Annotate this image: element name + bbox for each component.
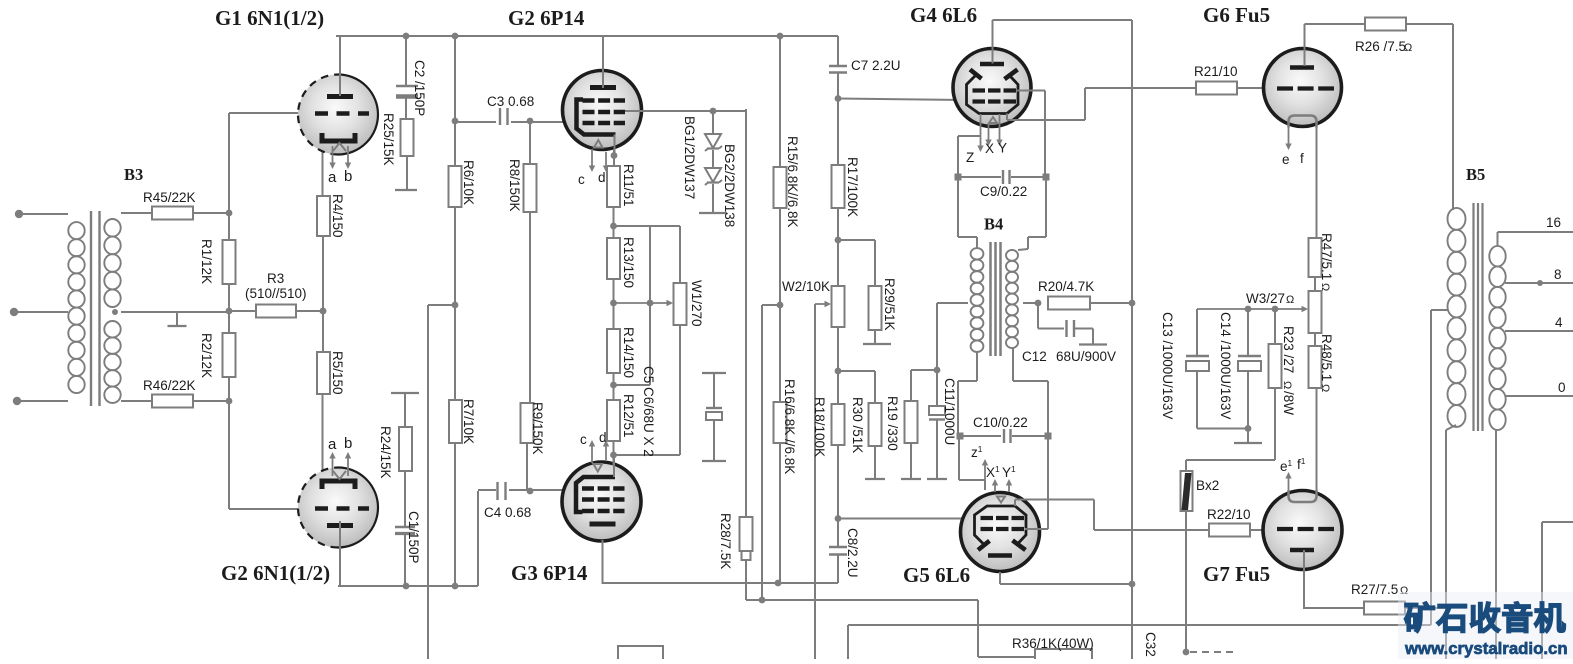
svg-text:R5/150: R5/150: [330, 351, 345, 395]
svg-text:G7 Fu5: G7 Fu5: [1203, 562, 1270, 586]
svg-text:C13 /1000U/163V: C13 /1000U/163V: [1160, 312, 1175, 419]
svg-text:R13/150: R13/150: [621, 237, 636, 288]
svg-text:c: c: [580, 432, 587, 447]
svg-text:C11/1000U: C11/1000U: [942, 378, 957, 445]
svg-text:Y: Y: [998, 141, 1007, 156]
svg-text:/8W: /8W: [1281, 391, 1296, 415]
svg-text:R19 /330: R19 /330: [885, 396, 900, 451]
svg-text:R15/6.8K//6.8K: R15/6.8K//6.8K: [785, 136, 800, 228]
svg-text:a: a: [328, 436, 337, 453]
svg-text:R46/22K: R46/22K: [143, 378, 196, 393]
svg-text:d: d: [598, 170, 606, 185]
svg-text:Ω: Ω: [1319, 283, 1331, 291]
svg-text:G6 Fu5: G6 Fu5: [1203, 3, 1270, 27]
svg-text:R6/10K: R6/10K: [461, 160, 476, 205]
svg-text:R45/22K: R45/22K: [143, 190, 196, 205]
svg-text:b: b: [344, 435, 352, 452]
svg-text:C4 0.68: C4 0.68: [484, 505, 531, 520]
svg-text:R20/4.7K: R20/4.7K: [1038, 279, 1094, 294]
svg-text:R1/12K: R1/12K: [199, 239, 214, 284]
svg-text:R23 /27: R23 /27: [1281, 326, 1296, 373]
svg-text:b: b: [344, 168, 352, 185]
svg-text:R9/150K: R9/150K: [530, 402, 545, 455]
svg-text:R11/51: R11/51: [621, 164, 636, 207]
svg-text:R24/15K: R24/15K: [378, 426, 393, 479]
svg-text:4: 4: [1555, 315, 1563, 330]
svg-text:R28/7.5K: R28/7.5K: [718, 513, 733, 569]
svg-text:C12: C12: [1022, 349, 1047, 364]
svg-text:R7/10K: R7/10K: [461, 399, 476, 444]
svg-text:www.crystalradio.cn: www.crystalradio.cn: [1404, 639, 1568, 658]
svg-text:B4: B4: [984, 215, 1003, 234]
svg-text:f: f: [1300, 151, 1304, 166]
svg-text:R14/150: R14/150: [621, 327, 636, 378]
svg-text:X: X: [985, 141, 994, 156]
svg-text:Bx2: Bx2: [1196, 478, 1219, 493]
svg-text:C14 /1000U/163V: C14 /1000U/163V: [1218, 312, 1233, 419]
svg-text:0: 0: [1558, 380, 1566, 395]
svg-text:W2/10K: W2/10K: [782, 279, 830, 294]
svg-text:8: 8: [1554, 267, 1562, 282]
svg-text:W3/27: W3/27: [1246, 291, 1285, 306]
svg-text:C1/150P: C1/150P: [406, 511, 421, 564]
svg-text:Z: Z: [966, 150, 974, 165]
svg-text:B5: B5: [1466, 165, 1485, 184]
svg-text:C5 C6/68U X 2: C5 C6/68U X 2: [641, 366, 656, 457]
svg-text:d: d: [599, 430, 607, 445]
svg-text:G1 6N1(1/2): G1 6N1(1/2): [215, 6, 324, 30]
svg-text:矿石收音机: 矿石收音机: [1404, 600, 1567, 636]
svg-text:Ω: Ω: [1319, 384, 1331, 392]
svg-text:G4 6L6: G4 6L6: [910, 3, 977, 27]
svg-text:R21/10: R21/10: [1194, 64, 1238, 79]
svg-text:R30 /51K: R30 /51K: [850, 397, 865, 453]
svg-text:R48/5.1: R48/5.1: [1319, 334, 1334, 381]
svg-text:R36/1K(40W): R36/1K(40W): [1012, 636, 1094, 651]
svg-text:R8/150K: R8/150K: [507, 159, 522, 212]
svg-text:R26 /7.5: R26 /7.5: [1355, 39, 1406, 54]
svg-text:C9/0.22: C9/0.22: [980, 184, 1027, 199]
svg-text:R2/12K: R2/12K: [199, 333, 214, 378]
svg-text:68U/900V: 68U/900V: [1056, 349, 1116, 364]
svg-text:R22/10: R22/10: [1207, 507, 1251, 522]
svg-text:G2 6N1(1/2): G2 6N1(1/2): [221, 561, 330, 585]
svg-text:R4/150: R4/150: [330, 194, 345, 238]
svg-text:R25/15K: R25/15K: [381, 113, 396, 166]
svg-text:R3: R3: [267, 271, 284, 286]
svg-text:C2 /150P: C2 /150P: [412, 60, 427, 116]
svg-text:R12/51: R12/51: [621, 394, 636, 438]
svg-text:B3: B3: [124, 165, 143, 184]
svg-text:C10/0.22: C10/0.22: [973, 415, 1028, 430]
svg-text:a: a: [328, 169, 337, 186]
svg-text:R29/51K: R29/51K: [882, 278, 897, 331]
svg-text:e: e: [1282, 152, 1290, 167]
svg-text:Ω: Ω: [1286, 294, 1294, 306]
svg-text:C3 0.68: C3 0.68: [487, 94, 534, 109]
svg-text:c: c: [578, 172, 585, 187]
svg-text:G5 6L6: G5 6L6: [903, 563, 970, 587]
svg-text:Ω: Ω: [1281, 381, 1293, 389]
svg-text:BG2/2DW138: BG2/2DW138: [722, 144, 737, 227]
svg-text:G2 6P14: G2 6P14: [508, 6, 585, 30]
svg-text:R18/100K: R18/100K: [812, 397, 827, 457]
svg-text:(510//510): (510//510): [245, 286, 307, 301]
svg-text:C8/2.2U: C8/2.2U: [845, 528, 860, 578]
svg-text:C7 2.2U: C7 2.2U: [851, 58, 901, 73]
svg-text:R27/7.5: R27/7.5: [1351, 582, 1398, 597]
svg-text:Ω: Ω: [1404, 42, 1412, 54]
svg-text:W1/270: W1/270: [689, 280, 704, 327]
svg-text:16: 16: [1546, 215, 1561, 230]
svg-text:G3 6P14: G3 6P14: [511, 561, 588, 585]
svg-text:R16/6.8K //6.8K: R16/6.8K //6.8K: [782, 379, 797, 474]
svg-text:R47/5.1: R47/5.1: [1319, 233, 1334, 280]
svg-text:R17/100K: R17/100K: [845, 157, 860, 217]
svg-text:C32: C32: [1143, 632, 1158, 657]
svg-text:BG1/2DW137: BG1/2DW137: [682, 116, 697, 199]
